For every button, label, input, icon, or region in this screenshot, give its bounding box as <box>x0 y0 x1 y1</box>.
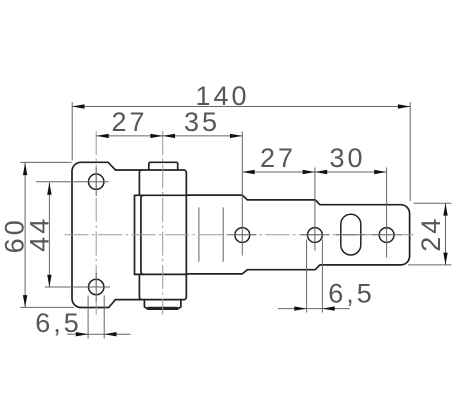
crosshair hole strap 3 <box>372 234 401 236</box>
barrel cap divider bottom <box>135 273 187 275</box>
svg-text:27: 27 <box>111 107 147 137</box>
barrel body left edge <box>141 195 144 274</box>
hole strap 3 <box>379 228 394 243</box>
arrow 30 right <box>374 170 386 174</box>
dimension line 6,5 right <box>278 308 350 310</box>
extension line hole bottom horizontal <box>45 286 110 288</box>
svg-text:44: 44 <box>25 216 55 252</box>
svg-text:6,5: 6,5 <box>35 308 82 338</box>
arrow 24 top <box>443 203 447 215</box>
extension line hole top horizontal <box>36 181 109 183</box>
arrow 27/35 middle left <box>150 134 162 138</box>
svg-text:27: 27 <box>260 143 296 173</box>
hinge pin top <box>149 162 178 170</box>
arrow 27r/30 middle right <box>315 170 327 174</box>
strap (right leaf) outline <box>186 195 409 274</box>
hinge pin bottom chamfer line <box>148 307 178 309</box>
extension line 140 right <box>409 102 411 201</box>
arrow 140 left <box>72 104 84 108</box>
arrow 60 top <box>23 163 27 175</box>
extension line 6,5 right a <box>306 240 308 313</box>
arrow 6,5 left b <box>104 332 116 336</box>
crosshair hole strap 1 <box>228 234 257 236</box>
barrel bottom cap left edge <box>139 274 142 299</box>
extension line 60 top <box>20 161 71 163</box>
arrow 60 bottom <box>23 295 27 307</box>
extension line 6,5 right b <box>321 240 323 313</box>
hole plate top <box>89 174 104 189</box>
arrow 44 bottom <box>47 275 51 287</box>
plate right edge <box>134 195 136 274</box>
arrow 6,5 right b <box>322 306 334 310</box>
extension line 60 bottom <box>20 306 74 308</box>
arrow 35 right <box>230 134 242 138</box>
extension line 6,5 left b <box>103 296 105 339</box>
arrow 6,5 left a <box>76 332 88 336</box>
arrow 27/35 middle right <box>163 134 175 138</box>
arrow 27r/30 middle left <box>303 170 315 174</box>
arrow 140 right <box>398 104 410 108</box>
extension line 140 left <box>71 102 73 161</box>
barrel outer contour (cap top edge, right side, cap bottom edge) <box>115 170 186 300</box>
dimension line 6,5 left <box>67 333 130 335</box>
dimension line 44 <box>48 183 50 288</box>
arrow 6,5 right a <box>294 306 306 310</box>
strap bend line 1 <box>198 207 200 261</box>
crosshair slot <box>336 234 366 236</box>
slot <box>341 214 361 255</box>
svg-text:24: 24 <box>416 216 446 252</box>
extension line 6,5 left a <box>87 296 89 339</box>
dimension line 140 <box>72 106 410 108</box>
arrow 27 left <box>96 134 108 138</box>
svg-text:6,5: 6,5 <box>328 279 375 309</box>
barrel cap divider top <box>135 194 187 196</box>
hole strap 1 <box>235 228 250 243</box>
svg-text:35: 35 <box>184 107 220 137</box>
dimension line 24 <box>445 203 447 265</box>
centerline horizontal axis <box>65 234 414 236</box>
strap bend line 2 <box>222 207 224 261</box>
dimension line 60 <box>24 163 26 308</box>
svg-text:30: 30 <box>329 143 365 173</box>
extension line 24 top <box>414 202 452 204</box>
extension line hole3 vertical <box>386 168 388 258</box>
extension line hole1 vertical <box>241 132 243 256</box>
centerline barrel vertical <box>162 131 164 315</box>
crosshair hole plate top vertical <box>95 168 97 197</box>
hole plate bottom <box>89 279 104 294</box>
centerline plate holes vertical <box>95 131 97 315</box>
dimension line 27-35 <box>96 135 242 137</box>
hinge left plate outline <box>72 162 116 307</box>
extension line 24 bottom <box>408 264 451 266</box>
arrow 44 top <box>47 183 51 195</box>
barrel top cap left edge <box>139 170 142 195</box>
hole strap 2 <box>308 228 323 243</box>
arrow 27r left <box>242 170 254 174</box>
extension line hole2 vertical <box>314 168 316 251</box>
arrow 24 bottom <box>443 253 447 265</box>
hinge pin bottom <box>144 300 181 310</box>
crosshair hole strap 2 <box>301 234 330 236</box>
dimension line 27-30 <box>242 171 386 173</box>
crosshair hole plate bottom vertical <box>95 273 97 302</box>
